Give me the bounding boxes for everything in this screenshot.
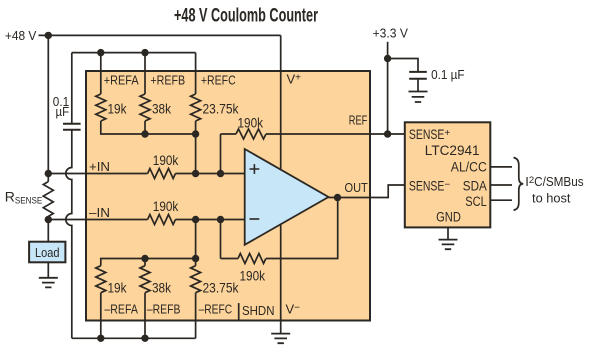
wire node -IN to inverting input (48, 219, 244, 221)
op-amp U1 (245, 149, 329, 245)
svg-text:+REFC: +REFC (201, 73, 236, 87)
svg-text:REF: REF (349, 114, 368, 128)
wire vertical REF resistor to +IN (220, 134, 222, 174)
resistor +REFA 19k (96, 94, 106, 121)
ground below V- (271, 334, 290, 344)
wire +REFC pin stub (195, 53, 197, 94)
svg-text:AL/CC: AL/CC (451, 159, 487, 174)
svg-text:SENSE+: SENSE+ (409, 127, 451, 142)
svg-text:GND: GND (436, 210, 461, 225)
resistor R_SENSE (43, 182, 53, 217)
svg-text:–REFA: –REFA (104, 303, 138, 317)
op-amp minus sign (250, 218, 260, 220)
node +3.3V cap tap (384, 55, 391, 62)
svg-text:+48 V Coulomb Counter: +48 V Coulomb Counter (174, 6, 318, 27)
node +REFB bottom (141, 130, 148, 137)
resistor +REFB 38k (140, 94, 150, 121)
wire 0.1uF cap branch vertical with hops over +IN and -IN (66, 53, 72, 339)
svg-text:SDA: SDA (463, 179, 487, 194)
wire main left vertical (+48V to R_SENSE to Load) (47, 35, 49, 277)
node +IN / +REF join (192, 170, 199, 177)
svg-text:190k: 190k (153, 198, 179, 214)
capacitor 0.1uF left (63, 124, 81, 130)
LTC2941 box (405, 122, 491, 227)
svg-text:190k: 190k (238, 115, 264, 131)
node -REFB top (141, 255, 148, 262)
wire AL/CC stub (491, 166, 512, 168)
wire -REFA pin stub to rail (100, 293, 102, 339)
wire -REFB pin stub to rail (144, 293, 146, 339)
svg-text:+3.3 V: +3.3 V (373, 27, 409, 41)
wire +REF tie rail (second wire) (72, 52, 196, 54)
amplifier block LT1990 (orange box) (86, 71, 370, 321)
Load box (29, 242, 65, 263)
wire V+ vertical drop to op-amp (280, 35, 282, 169)
node -REFB rail (141, 335, 148, 342)
ground below LTC2941 (439, 240, 458, 250)
wire vertical -IN to -REF tops (195, 220, 197, 259)
wire V- vertical from op-amp to ground (280, 224, 282, 333)
wire bottom -REF tie rail (72, 337, 196, 339)
wire +REF resistor bottoms bus (101, 121, 196, 134)
node REF / SENSE+ junction (384, 130, 391, 137)
wire +REFB pin stub (144, 53, 146, 94)
brace for I2C bus (514, 158, 524, 211)
svg-text:µF: µF (56, 105, 70, 119)
svg-text:SENSE−: SENSE− (409, 179, 451, 194)
svg-text:–IN: –IN (89, 206, 110, 220)
node +IN sense (45, 170, 52, 177)
svg-text:SCL: SCL (465, 194, 487, 209)
svg-text:38k: 38k (152, 280, 172, 296)
op-amp plus sign (250, 164, 260, 174)
wire node +IN to non-inverting input (48, 173, 244, 175)
node +IN / REF resistor join (217, 170, 224, 177)
svg-text:190k: 190k (153, 152, 179, 168)
svg-text:0.1 µF: 0.1 µF (431, 68, 465, 82)
svg-text:19k: 19k (108, 100, 128, 116)
wire vertical +REF bottoms to +IN (195, 134, 197, 174)
SHDN pin separator (238, 303, 240, 321)
resistor -REFC 23.75k (191, 266, 201, 293)
node -IN / -REF join (192, 216, 199, 223)
wire OUT to SENSE- with jog (329, 185, 405, 198)
wire +48V top rail (39, 34, 281, 36)
wire feedback from OUT to -IN (221, 198, 338, 259)
svg-text:+48 V: +48 V (5, 29, 37, 43)
wire REF line to box edge and SENSE+ (221, 133, 405, 135)
svg-text:SHDN: SHDN (242, 304, 275, 318)
svg-text:–REFC: –REFC (199, 303, 233, 317)
svg-text:Load: Load (35, 246, 60, 260)
svg-text:to host: to host (532, 191, 571, 206)
svg-text:+REFA: +REFA (104, 73, 139, 87)
wire LTC2941 GND lead (447, 227, 449, 239)
node +REFC bottom (192, 130, 199, 137)
resistor 190k REF (236, 129, 266, 139)
resistor -REFA 19k (96, 266, 106, 293)
wire SCL stub (491, 199, 512, 201)
svg-text:I2C/SMBus: I2C/SMBus (525, 174, 584, 189)
svg-text:+REFB: +REFB (150, 73, 185, 87)
svg-text:+IN: +IN (89, 160, 110, 174)
wire +REFA pin stub (100, 53, 102, 94)
resistor 190k feedback (238, 254, 266, 264)
svg-text:–REFB: –REFB (147, 303, 181, 317)
resistor 190k +IN (148, 169, 176, 179)
wire -REF resistor tops bus (101, 259, 196, 266)
node -IN sense (45, 216, 52, 223)
node +REFB tie (141, 49, 148, 56)
node -REFC top (192, 255, 199, 262)
wire -REFC pin stub to rail (195, 293, 197, 339)
node OUT junction (334, 194, 341, 201)
wire +3.3V vertical to REF junction (387, 42, 389, 134)
svg-text:23.75k: 23.75k (203, 100, 240, 116)
ground below Load (39, 278, 58, 288)
wire +3.3V branch to bypass cap (388, 59, 418, 92)
svg-text:OUT: OUT (345, 181, 369, 195)
node -REFA rail (97, 335, 104, 342)
svg-text:23.75k: 23.75k (203, 280, 240, 296)
svg-text:190k: 190k (240, 267, 266, 283)
wire vertical -IN to feedback resistor (220, 220, 222, 259)
node +REFA tie (97, 49, 104, 56)
resistor -REFB 38k (140, 266, 150, 293)
ground below 3.3V cap (409, 92, 428, 103)
node -IN / feedback join (217, 216, 224, 223)
resistor +REFC 23.75k (191, 94, 201, 121)
capacitor 0.1uF right (409, 72, 427, 79)
wire SDA stub (491, 184, 512, 186)
resistor 190k -IN (148, 215, 176, 225)
svg-text:38k: 38k (152, 100, 172, 116)
svg-text:LTC2941: LTC2941 (425, 143, 480, 158)
node +48V junction (45, 32, 52, 39)
svg-text:19k: 19k (108, 280, 128, 296)
